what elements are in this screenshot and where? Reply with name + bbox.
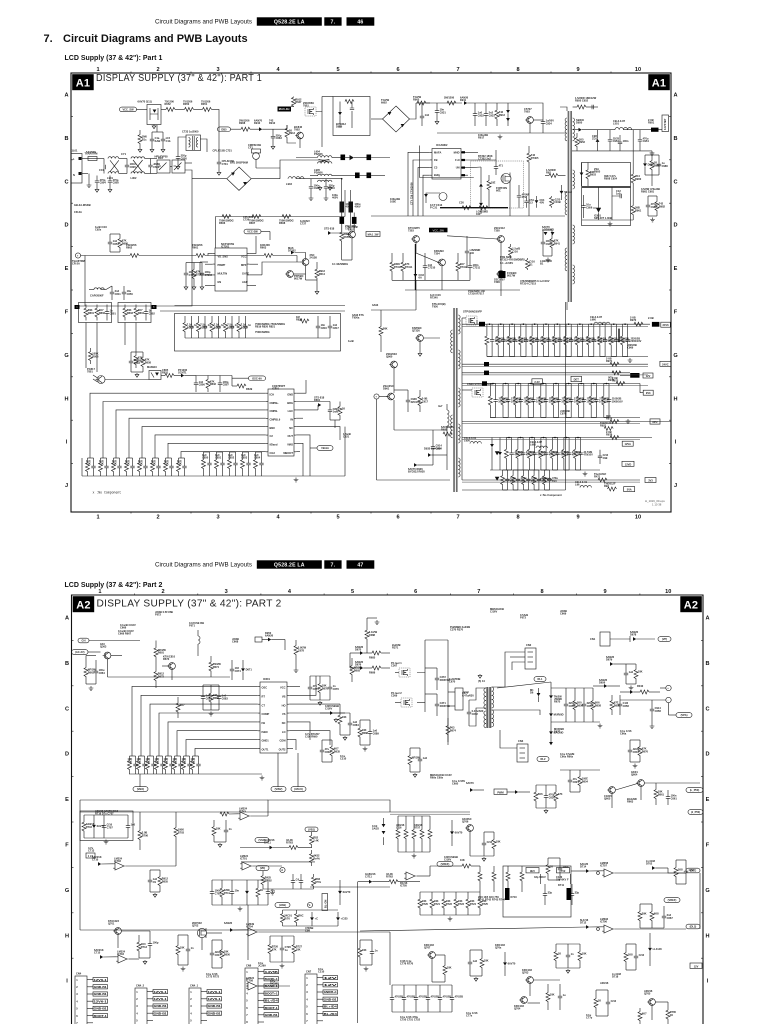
svg-text:R723: R723	[458, 902, 465, 906]
svg-text:5VA: 5VA	[627, 488, 632, 492]
capacitor C691	[95, 660, 97, 671]
wire	[529, 983, 531, 996]
svg-text:6AV70: 6AV70	[508, 961, 516, 965]
node label VCC_SW	[120, 107, 137, 112]
connector CN7	[305, 974, 317, 1024]
svg-text:CTY 726 CTX/2006: CTY 726 CTX/2006	[410, 182, 414, 205]
wire	[166, 457, 172, 459]
svg-text:1u: 1u	[563, 993, 566, 997]
wire	[548, 857, 560, 859]
svg-text:5: 5	[246, 999, 248, 1003]
svg-text:D: D	[64, 223, 68, 229]
svg-text:B: B	[673, 136, 677, 142]
resistor R740	[359, 940, 361, 948]
capacitor C672a	[202, 685, 204, 697]
capacitor C663	[569, 770, 571, 780]
wire pin fan	[155, 435, 266, 458]
svg-text:PWM: PWM	[497, 790, 503, 794]
wire	[566, 383, 571, 385]
wire vertical long	[357, 882, 359, 985]
svg-text:10K: 10K	[447, 966, 452, 970]
resistor R7321	[462, 206, 471, 210]
svg-text:12VSTBY: 12VSTBY	[663, 118, 667, 130]
diode D655	[550, 724, 552, 731]
svg-text:JC299: JC299	[258, 964, 266, 968]
svg-text:VMO: VMO	[287, 443, 293, 447]
wire	[105, 379, 149, 381]
wire	[589, 323, 594, 325]
resistor R803	[124, 305, 126, 309]
resistor R977	[578, 384, 580, 397]
svg-text:C726: C726	[243, 218, 250, 222]
svg-text:C666 R667: C666 R667	[118, 632, 132, 636]
capacitor C969	[593, 324, 595, 339]
diode D653	[550, 688, 552, 695]
wire	[273, 128, 287, 130]
svg-text:C/16: C/16	[639, 953, 645, 957]
node label GH	[78, 638, 89, 643]
wire bus	[108, 676, 231, 678]
svg-text:5A/250V: 5A/250V	[86, 150, 96, 154]
svg-text:R050: R050	[183, 102, 190, 106]
op-amp U71C	[240, 862, 253, 870]
svg-text:040: 040	[476, 212, 481, 216]
wire	[81, 255, 130, 257]
heavy diode D960	[479, 322, 485, 327]
transistor Q7203	[302, 259, 309, 266]
svg-text:D679: D679	[606, 658, 613, 662]
resistor R66a	[639, 740, 641, 747]
svg-text:A2: A2	[684, 599, 698, 611]
svg-text:1n: 1n	[375, 949, 378, 953]
capacitor C7310	[424, 253, 426, 266]
svg-text:5: 5	[306, 1005, 308, 1009]
resistor R602 ladder	[155, 664, 157, 672]
svg-text:1n/B: 1n/B	[333, 410, 339, 414]
transistor Q766	[467, 825, 474, 832]
svg-text:J: J	[65, 483, 68, 489]
resistor R7320	[380, 320, 382, 327]
wire	[529, 437, 534, 439]
connector CN6	[245, 968, 258, 1024]
resistor R687	[192, 756, 194, 761]
wire	[79, 800, 81, 930]
wire	[291, 106, 294, 108]
wire	[503, 469, 508, 471]
wire	[545, 469, 550, 471]
capacitor C774	[607, 990, 609, 1002]
bridge rectifier 6902	[383, 106, 410, 132]
wire bus 3V3	[462, 479, 640, 481]
svg-text:D980: D980	[648, 162, 655, 166]
capacitor C907b bulk	[352, 217, 357, 224]
wire	[250, 128, 259, 130]
wire	[659, 129, 663, 131]
transistor Q7306	[498, 271, 505, 278]
fuse F671	[197, 630, 199, 636]
svg-text:C92x: C92x	[95, 228, 102, 232]
svg-text:24V6: 24V6	[662, 323, 669, 327]
svg-text:(VP): (VP)	[662, 637, 667, 641]
svg-text:C/702: C/702	[265, 878, 272, 882]
bold wire	[618, 329, 620, 343]
capacitor C66a	[629, 740, 631, 750]
wire	[350, 652, 360, 654]
wire pins left	[408, 152, 430, 216]
svg-text:R804: R804	[138, 311, 145, 315]
node label L_P50	[686, 788, 703, 793]
capacitor C92x	[109, 234, 111, 242]
svg-text:(VREF): (VREF)	[441, 862, 450, 866]
wire	[417, 464, 433, 466]
capacitor C956	[583, 195, 585, 206]
svg-text:3: 3	[136, 1004, 138, 1008]
svg-text:6AV70: 6AV70	[343, 890, 351, 894]
wire	[178, 934, 188, 936]
wire	[341, 248, 343, 260]
svg-text:10E: 10E	[491, 181, 496, 185]
capacitor C673	[218, 685, 220, 697]
svg-text:F-N: F-N	[455, 158, 459, 162]
diode D671	[242, 660, 244, 668]
resistor R9610	[599, 324, 601, 336]
resistor R968	[576, 324, 578, 336]
svg-text:C618: C618	[134, 361, 141, 365]
svg-text:R602: R602	[126, 246, 133, 250]
wire	[600, 323, 605, 325]
svg-text:VD_SNS: VD_SNS	[218, 255, 229, 259]
svg-text:5K6: 5K6	[538, 792, 543, 796]
svg-text:R686: R686	[122, 241, 129, 245]
wire	[230, 451, 236, 453]
svg-text:(AC-3V): (AC-3V)	[75, 650, 85, 654]
node label VREF	[437, 862, 453, 867]
svg-text:MA8910: MA8910	[147, 365, 157, 369]
wire bus return	[462, 481, 640, 483]
svg-text:(L_P50): (L_P50)	[690, 788, 700, 792]
resistor R760	[493, 832, 495, 840]
resistor R980	[651, 155, 653, 161]
svg-text:B1: B1	[529, 262, 533, 266]
resistor R7312	[457, 253, 459, 262]
resistor R052	[166, 107, 175, 111]
wire	[379, 396, 387, 398]
diode D656c	[537, 693, 541, 696]
capacitor C704	[149, 870, 151, 880]
resistor R950	[577, 105, 586, 109]
capacitor C690	[321, 740, 323, 750]
capacitor C660	[667, 790, 669, 797]
svg-text:6AN26: 6AN26	[265, 634, 274, 638]
svg-text:BRG: BRG	[287, 401, 293, 405]
resistor R681	[138, 756, 140, 761]
capacitor C932	[474, 103, 476, 114]
schematic border frame	[71, 73, 671, 512]
capacitor C813	[231, 316, 233, 326]
wire	[632, 151, 634, 170]
resistor R784	[311, 850, 313, 854]
resistor R777	[625, 944, 627, 953]
node label VIN2	[255, 838, 269, 843]
diode D713	[649, 933, 651, 948]
capacitor C845	[158, 458, 160, 466]
svg-text:10K: 10K	[362, 948, 367, 952]
wire	[541, 383, 546, 385]
svg-text:C904: C904	[100, 181, 107, 185]
wire pin fan	[186, 740, 258, 756]
svg-text:7305: 7305	[494, 229, 500, 233]
svg-text:Q528.2E LA: Q528.2E LA	[274, 19, 305, 25]
svg-text:GND-B1: GND-B1	[265, 1013, 278, 1017]
svg-text:CR-2A: CR-2A	[72, 262, 80, 266]
feedback block frame	[582, 163, 631, 226]
svg-text:L962: L962	[530, 443, 536, 447]
capacitor C807	[219, 376, 221, 383]
wire bus return	[462, 374, 648, 376]
svg-text:Q605: Q605	[604, 797, 611, 801]
svg-text:R627: R627	[295, 100, 302, 104]
svg-text:E: E	[65, 266, 69, 272]
capacitor C923	[130, 352, 132, 361]
resistor R721	[431, 892, 433, 899]
resistor R7305	[528, 150, 530, 153]
resistor R970	[634, 322, 643, 326]
svg-text:750K/SMDG: 750K/SMDG	[255, 330, 270, 334]
svg-text:A1: A1	[652, 77, 666, 89]
svg-text:C3: C3	[434, 166, 438, 170]
wire	[623, 129, 651, 131]
svg-text:D710: D710	[511, 895, 518, 899]
inductor L905b	[318, 180, 332, 182]
svg-text:CMPB+: CMPB+	[270, 401, 280, 405]
diode D702	[98, 862, 101, 866]
wire	[699, 873, 701, 929]
connector CN2	[525, 648, 536, 669]
capacitor C907 bulk	[349, 202, 354, 213]
diode D760	[451, 820, 453, 831]
svg-text:K5%: K5%	[315, 880, 321, 884]
svg-text:C08: C08	[305, 929, 310, 933]
wire	[170, 166, 172, 168]
svg-text:A1: A1	[76, 77, 90, 89]
mosfet Q652 dashed	[401, 698, 412, 707]
svg-text:PS/606: PS/606	[314, 171, 323, 175]
resistor R952	[576, 133, 578, 138]
wire long down	[357, 985, 359, 1023]
wire	[560, 769, 600, 771]
op-amp U73A	[404, 872, 417, 880]
svg-text:7: 7	[456, 67, 459, 73]
capacitor C810	[191, 316, 193, 326]
smallbox 2V2	[532, 379, 543, 384]
wire	[240, 847, 270, 849]
capacitor C941	[421, 108, 423, 116]
svg-text:C933: C933	[489, 113, 496, 117]
resistor R845	[152, 458, 154, 463]
resistor R812	[211, 316, 213, 323]
svg-text:C668: C668	[232, 640, 239, 644]
node label VB-9A	[317, 446, 333, 451]
wire bus 9V	[462, 383, 640, 385]
node label VREF2	[664, 898, 680, 903]
svg-text:R722: R722	[446, 902, 453, 906]
resistor R961	[497, 324, 499, 336]
svg-text:Q702: Q702	[192, 924, 199, 928]
tag 12V box	[643, 373, 653, 378]
wire	[262, 128, 273, 130]
svg-text:10K: 10K	[180, 946, 185, 950]
capacitor C966	[559, 324, 561, 339]
relay RL2	[157, 160, 170, 173]
svg-text:47: 47	[357, 562, 363, 568]
resistor R977	[608, 487, 617, 491]
svg-text:J: J	[674, 483, 677, 489]
svg-text:R658: R658	[145, 360, 152, 364]
svg-text:F673: F673	[520, 616, 526, 620]
svg-text:4: 4	[246, 991, 248, 995]
svg-text:STS-818: STS-818	[324, 227, 335, 231]
resistor R822	[300, 319, 309, 323]
ground bus	[129, 773, 262, 775]
svg-text:Q765: Q765	[644, 992, 651, 996]
wire	[383, 818, 385, 824]
wire	[256, 167, 280, 169]
svg-text:C658: C658	[623, 704, 630, 708]
bold collector wire	[414, 244, 416, 290]
capacitor C982	[647, 196, 649, 205]
svg-text:3: 3	[306, 990, 308, 994]
resistor R723	[455, 892, 457, 899]
node label VAUX	[291, 787, 306, 792]
svg-text:C678: C678	[298, 648, 305, 652]
svg-text:3V3: 3V3	[648, 479, 653, 483]
resistor R92x	[119, 234, 121, 239]
wire pin fan	[129, 418, 266, 458]
wire bus	[241, 861, 315, 863]
svg-text:1K: 1K	[550, 865, 553, 869]
op-amp U74B	[602, 869, 615, 877]
svg-text:1n: 1n	[571, 952, 574, 956]
svg-text:C/16: C/16	[396, 826, 402, 830]
wire	[192, 178, 227, 180]
header chapter tag	[324, 560, 341, 568]
svg-text:R674: R674	[213, 665, 220, 669]
svg-text:R905: R905	[413, 98, 420, 102]
connector CN4_2	[135, 988, 147, 1024]
mosfet Q951 dashed box	[472, 388, 483, 397]
resistor R684	[339, 704, 341, 715]
svg-text:CMPBL9: CMPBL9	[270, 417, 281, 421]
transformer T7201 standby	[186, 135, 201, 151]
wire	[271, 639, 285, 641]
svg-text:BL+/D4: BL+/D4	[324, 1005, 337, 1009]
svg-text:G: G	[705, 888, 709, 894]
svg-text:1K: 1K	[558, 952, 561, 956]
svg-text:GND1: GND1	[262, 739, 270, 743]
svg-text:470/2B: 470/2B	[407, 995, 415, 999]
resistor R707	[221, 880, 223, 888]
diode D658	[515, 790, 518, 794]
pin P1	[75, 253, 80, 258]
header page number tag	[347, 17, 375, 25]
wire	[251, 815, 268, 817]
svg-text:R051: R051	[201, 102, 208, 106]
resistor R686	[183, 756, 185, 761]
svg-text:7.: 7.	[331, 19, 336, 25]
svg-text:R673: R673	[163, 657, 170, 661]
wire	[506, 437, 511, 439]
svg-text:LCD Supply (37 & 42"): Part 1: LCD Supply (37 & 42"): Part 1	[65, 55, 163, 62]
wire	[416, 102, 430, 104]
wire	[161, 375, 165, 377]
svg-text:60C: 60C	[496, 189, 501, 193]
resistor R677	[295, 640, 297, 646]
transformer T950 primary windings	[451, 330, 453, 353]
resistor R680	[129, 756, 131, 761]
svg-text:6: 6	[306, 1012, 308, 1016]
svg-text:3A93: 3A93	[372, 303, 379, 307]
transistor Q960	[391, 361, 398, 368]
wire bus	[551, 687, 593, 689]
svg-text:GH: GH	[82, 639, 86, 643]
node label DL2	[686, 924, 700, 929]
svg-text:4: 4	[288, 589, 292, 595]
svg-text:2A/25: 2A/25	[372, 827, 379, 831]
diode D973	[414, 463, 417, 467]
wire	[398, 815, 430, 817]
svg-text:C77y: C77y	[586, 1016, 593, 1020]
wire vertical drain	[321, 112, 323, 148]
svg-text:D7202: D7202	[288, 249, 296, 253]
resistor array box 1	[79, 303, 112, 323]
svg-text:(VPA): (VPA)	[681, 713, 688, 717]
svg-text:VB: VB	[282, 695, 286, 699]
svg-text:470/2B: 470/2B	[455, 995, 463, 999]
svg-text:C932: C932	[478, 113, 485, 117]
capacitor C701	[225, 820, 227, 830]
output tag 3V3a	[645, 478, 656, 483]
output tag 3V3b	[622, 461, 634, 466]
resistor R712	[462, 864, 471, 868]
resistor R662	[535, 785, 537, 792]
wire	[543, 323, 548, 325]
resistor R7204	[193, 263, 195, 270]
svg-text:10K: 10K	[460, 858, 465, 862]
output tag L4V6	[660, 361, 671, 366]
svg-text:5: 5	[351, 589, 354, 595]
transistor Q363	[104, 652, 111, 659]
svg-text:1K8: 1K8	[678, 868, 683, 872]
resistor R806	[90, 348, 92, 352]
resistor R692	[331, 740, 333, 747]
capacitor C902	[126, 159, 128, 166]
wire	[528, 383, 533, 385]
svg-text:EN: EN	[218, 280, 222, 284]
transistor Q764	[521, 997, 528, 1004]
wire	[540, 874, 542, 884]
wire bottom bus E	[405, 289, 520, 291]
wire	[178, 137, 187, 150]
wire long down2	[247, 905, 249, 960]
svg-text:5: 5	[336, 67, 339, 73]
wire	[306, 279, 318, 281]
svg-text:D911: D911	[460, 98, 467, 102]
resistor R966	[554, 324, 556, 336]
svg-text:8: 8	[516, 514, 519, 520]
resistor R965	[542, 324, 544, 336]
resistor R976	[565, 384, 567, 397]
transistor Q7205	[349, 231, 356, 238]
